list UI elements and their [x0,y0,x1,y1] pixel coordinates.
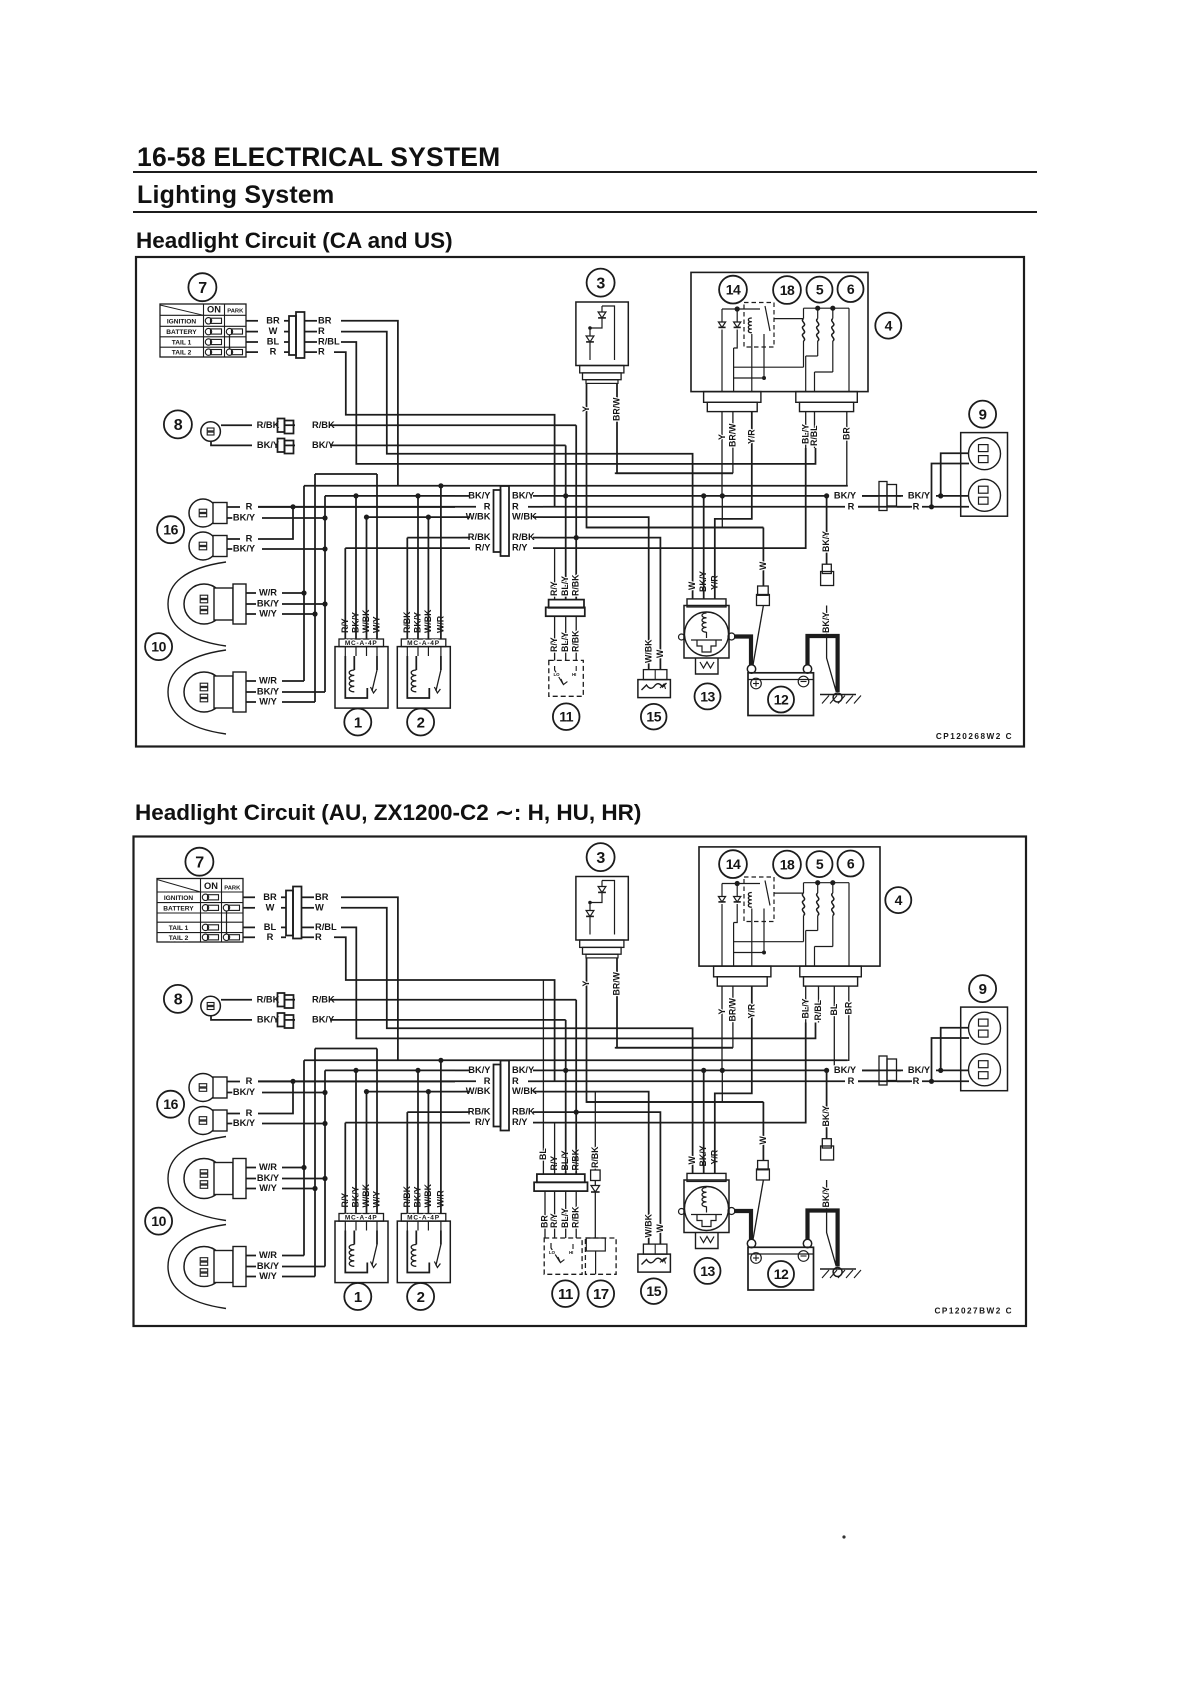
svg-text:9: 9 [979,407,987,424]
svg-text:BL: BL [829,1003,839,1015]
svg-text:R/BL: R/BL [813,999,823,1020]
wire W ignition to starter relay bus [341,908,693,1174]
battery terminal minus symbol [798,1251,809,1262]
svg-text:5: 5 [816,282,824,298]
wire W/R headlamp 1 [246,1167,256,1169]
wire BK/Y headlamp 1 [246,603,256,605]
filament top bus [804,882,850,884]
svg-text:Y: Y [581,406,591,412]
svg-text:BK/Y: BK/Y [908,1065,931,1075]
svg-text:BK/Y: BK/Y [512,491,535,501]
svg-text:R: R [246,1076,253,1086]
city light 16 callout [157,516,184,543]
svg-text:W/BK: W/BK [644,639,654,663]
battery 12 callout [768,1261,794,1287]
svg-text:R: R [913,501,920,511]
wire BL/Y from junction box [805,412,807,448]
filament F5b [817,893,819,915]
diode D14b [736,884,738,897]
bulb B8 [201,996,221,1016]
svg-text:R: R [848,501,855,511]
diode unit 3 box [576,302,628,366]
relay R1 callout [344,1283,371,1310]
svg-text:R/BL: R/BL [809,425,819,446]
svg-text:R/Y: R/Y [475,1117,491,1127]
wire BK/Y to fuse [826,1070,828,1138]
svg-text:R/BK: R/BK [468,532,491,542]
headlamp bus BK/Y [324,1070,326,1266]
city bulb B16-2 [189,532,217,560]
starter relay terminal left [679,1209,685,1215]
svg-text:BL/Y: BL/Y [560,576,570,596]
battery 12 callout [768,687,794,713]
diode unit 3 internals [601,306,603,312]
bus Y segment [587,527,764,529]
svg-text:BK/Y: BK/Y [257,1015,280,1025]
headlamp bus W/R [303,486,305,681]
battery - post [803,665,811,673]
svg-text:BR: BR [266,315,280,325]
riser BK/Y relay1 [355,496,357,639]
svg-text:15: 15 [646,709,661,725]
battery 12 box [748,673,814,716]
dimmer pin BR lower [544,1191,546,1238]
wire Y from junction box [721,412,723,496]
svg-text:13: 13 [700,688,715,704]
svg-text:Y: Y [717,1009,727,1015]
svg-text:BK/Y: BK/Y [233,513,256,523]
wire BK/Y city bulb 2 [227,548,240,550]
headlamp bulb B10-1 [184,584,224,624]
svg-text:R/BK: R/BK [571,630,581,652]
svg-text:BK/Y: BK/Y [257,440,280,450]
tail bulb B9a [969,1012,1001,1044]
wire R city bulb 2 [227,1113,240,1115]
svg-text:8: 8 [174,992,183,1009]
svg-text:HI: HI [569,1250,573,1255]
relay R1 box [335,1221,388,1283]
tail lamp unit 8 callout [164,410,192,438]
row W/BK left segment [367,516,463,518]
wire R/BL out of connector J7 [305,341,317,343]
row R/BK right to switch15 [543,1112,660,1244]
wire Y/R to starter relay [715,412,752,599]
svg-text:PARK: PARK [224,885,241,891]
ignition switch table [157,879,243,943]
svg-text:BK/Y: BK/Y [257,1173,280,1183]
diagram border [134,837,1027,1327]
dimmer pin R/Y upper [554,548,556,600]
svg-text:R/Y: R/Y [549,1213,559,1228]
svg-text:LO: LO [549,1250,556,1255]
headlamp bulb B10-1 [184,1159,224,1199]
starter relay 13 callout [695,683,721,709]
wire W from ignition switch [243,907,255,909]
bus W/Y to relay R1 [315,1048,377,1050]
riser R/BK relay2 [406,1112,408,1213]
svg-text:W/BK: W/BK [644,1213,654,1237]
junction dot R bus [290,504,295,509]
filament F5a [802,893,804,915]
starter relay 13 lower terminal [696,658,719,674]
dimmer switch box (dashed) [549,660,584,696]
callout 4 [875,313,901,339]
junction internal bus 2 [805,931,807,967]
svg-text:BK/Y: BK/Y [821,612,831,633]
wire BR/W from diode unit [617,958,733,1048]
wire R from ignition switch [246,351,258,353]
svg-text:R: R [267,932,274,942]
battery 12 box [748,1247,814,1290]
relay R2 connector bar MC-A-4P [401,639,446,647]
connector J11 (headlight harness) [494,1065,501,1127]
svg-text:R/Y: R/Y [475,543,491,553]
relay 18 coil [748,893,751,908]
headlamp bus W/Y [314,474,316,702]
wire R/BL out of connector J7 [302,926,314,928]
svg-text:3: 3 [596,275,605,292]
svg-text:W: W [655,649,665,658]
relay 18 coil [748,318,751,333]
diode top bus [722,308,760,310]
svg-text:7: 7 [195,854,204,871]
headlamp reflector 1 [168,1137,226,1221]
wire BK/Y city bulb 1 [227,517,240,519]
city bulb B16-1 [189,1074,217,1102]
svg-text:BK/Y: BK/Y [233,1118,256,1128]
junction dot R bus [290,1079,295,1084]
svg-text:BR/W: BR/W [612,397,622,421]
switch 15 callout [641,704,667,730]
riser R/Y relay1 [344,548,346,639]
svg-text:Y/R: Y/R [747,429,757,444]
junction internal bus 3 [814,372,816,392]
connector J9 [879,482,887,511]
relay R1 pin wire W/Y [376,647,378,656]
svg-text:W: W [687,1156,697,1165]
callout 14 (diodes) [719,850,747,878]
wire R/BK from bulb B8 [221,424,252,426]
wire R city bulb 1 [227,1081,240,1083]
svg-text:R/Y: R/Y [549,581,559,596]
riser W/BK relay1 [366,1092,368,1214]
callout 18 (headlight relay) [773,276,801,304]
bus B4 right segment BR/W [615,1047,733,1049]
wire R/BL to bus B3 [341,927,816,1038]
svg-text:BR: BR [315,892,329,902]
wire Y from diode unit [587,958,764,1102]
bus W/R junction to R2 [304,485,848,487]
callout 5 (fuse) [807,277,833,303]
bus BK/Y to connector J11 [325,495,455,497]
headlamp reflector 2 [168,650,226,734]
junction dot R at box 9 [929,1079,934,1084]
svg-text:W/Y: W/Y [259,1183,277,1193]
relay R2 pin wire BK/Y [417,647,419,656]
tail bulb B9b [969,1054,1001,1086]
svg-text:W/R: W/R [259,588,277,598]
wire R city bulb 2 [227,538,240,540]
svg-text:R/BK: R/BK [590,1146,600,1168]
svg-text:4: 4 [885,318,893,334]
headlamp bus W/Y [314,1049,316,1277]
dimmer pin BL/Y upper [565,496,567,600]
riser BK/Y relay2 [417,496,419,639]
relay 18 dashed box [744,877,774,922]
switch 15 connector [643,1244,667,1254]
starter relay 13 body [684,606,729,659]
wire BK/Y headlamp 2 [246,1266,256,1268]
wire R tail2 to connector J11 R [334,937,555,1081]
dimmer switch contact [551,1243,560,1262]
svg-text:BK/Y: BK/Y [468,491,491,501]
relay R1 pin wire R/Y [344,647,346,656]
relay R2 box [397,647,450,709]
svg-text:2: 2 [417,714,425,731]
svg-text:W/R: W/R [259,1250,277,1260]
rule under section heading [133,211,1037,213]
fuse F-BKY (taillight) [822,564,831,573]
wire W/R headlamp 2 [246,680,256,682]
connector box 17 (dashed) [585,1238,616,1274]
dimmer connector bar [537,1174,585,1182]
relay R2 callout [407,709,434,736]
dimmer pin BL/Y upper [565,1070,567,1174]
svg-text:2: 2 [417,1289,425,1306]
wire BR out of connector J7 [305,320,317,322]
connector J7 (ignition switch 4P) [286,891,293,936]
wire W/Y headlamp 1 [246,1188,256,1190]
wire R/BL to bus B3 [341,342,816,464]
svg-text:BL/Y: BL/Y [560,1208,570,1228]
switch 15 connector [643,670,667,680]
wire BK/Y to fuse [826,496,828,564]
svg-text:R: R [246,502,253,512]
fuse F-W (main) [758,586,769,595]
row W/BK right to switch15 [543,517,649,670]
svg-text:BL: BL [538,1148,548,1160]
dimmer pin BL/Y lower [565,1191,567,1238]
svg-text:8: 8 [174,417,183,434]
riser W/BK relay2 [427,517,429,639]
relay R2 pin wire R/BK [406,1221,408,1230]
svg-text:ON: ON [207,305,221,315]
bus B4 right segment BR/W [615,472,733,474]
svg-text:RB/K: RB/K [468,1107,491,1117]
row R/Y left segment [345,547,462,549]
dimmer 11 callout [553,703,580,730]
diagram border [136,257,1024,747]
svg-text:HI: HI [572,672,576,677]
svg-text:16: 16 [163,1096,178,1112]
dimmer switch box 11 (dashed) [544,1238,582,1274]
diode unit 3 callout [587,843,615,871]
svg-text:BK/Y: BK/Y [908,491,931,501]
wire BK/Y from bulb B8 [211,1016,252,1020]
sub heading diagram 2 [135,800,641,826]
svg-text:BATTERY: BATTERY [163,905,194,912]
relay R1 pin wire BK/Y [355,1221,357,1230]
riser W/R relay2 [440,1060,442,1213]
svg-text:14: 14 [726,856,741,872]
junction dot BK/Y at box 9 [938,493,943,498]
starter relay 13 callout [695,1258,721,1284]
wire BR from junction box [848,986,849,1060]
starter relay terminal right [728,1208,735,1215]
svg-text:5: 5 [816,856,824,872]
wire BK/Y up to tail bulb [941,453,969,496]
svg-text:BK/Y: BK/Y [821,1105,831,1126]
junction internal bus 1 [733,923,735,967]
svg-text:15: 15 [646,1283,661,1299]
riser BK/Y relay1 [355,1070,357,1213]
diode top bus [722,883,760,885]
svg-text:R: R [318,347,325,357]
connector J9 [879,1056,887,1085]
wire BL from ignition switch [243,926,255,928]
connector 17 internals [586,1238,605,1251]
battery + post [747,1239,755,1247]
wire W out of connector J7 [302,907,314,909]
headlight 10 callout [145,1208,172,1235]
tail light 9 callout [969,975,996,1002]
svg-text:3: 3 [596,850,605,867]
riser W/BK relay2 [427,1092,429,1214]
relay R1 connector bar MC-A-4P [339,1214,384,1222]
headlamp reflector 1 [168,562,226,646]
svg-text:10: 10 [151,1213,166,1229]
wire R up to tail bulb [932,1038,970,1081]
switch 15 box [638,1254,671,1272]
filament F6 [832,893,834,915]
city bulb B16-2 [189,1107,217,1135]
svg-text:W/Y: W/Y [259,697,277,707]
thick ground lead from battery [808,1211,838,1267]
relay R1 internals (coil and contact) [345,1231,367,1273]
svg-text:11: 11 [558,1286,573,1303]
relay R1 box [335,647,388,709]
svg-text:BK/Y: BK/Y [257,599,280,609]
svg-text:CP12027BW2 C: CP12027BW2 C [934,1307,1013,1316]
wire BK/Y headlamp 1 [246,1178,256,1180]
junction box connector B [800,966,862,977]
svg-text:16: 16 [163,522,178,538]
row R/Y right to BL/Y [543,1023,806,1123]
connector J8a [278,419,285,433]
wire W fuse to battery [762,1102,764,1161]
relay R1 callout [344,709,371,736]
thick ground lead from battery [808,636,838,692]
starter relay 13 cap [687,1173,726,1181]
svg-text:R: R [484,1076,491,1086]
svg-text:TAIL 2: TAIL 2 [169,935,189,942]
ground symbol [833,1268,842,1277]
svg-text:W: W [315,902,324,912]
diode unit 3 callout [587,269,615,297]
svg-text:6: 6 [847,856,855,872]
tail light 9 callout [969,401,996,428]
svg-text:R: R [315,932,322,942]
svg-text:R: R [246,534,253,544]
svg-text:W: W [687,581,697,590]
row R left segment [258,506,457,508]
relay R2 pin wire W/BK [427,1221,429,1230]
svg-text:1: 1 [354,714,362,731]
svg-text:4: 4 [895,892,903,908]
wire BK/Y from bulb B8 [211,441,252,445]
relay R1 pin wire W/Y [376,1221,378,1230]
svg-text:IGNITION: IGNITION [164,895,194,902]
riser W/BK relay1 [366,517,368,639]
riser R/Y relay1 [344,1123,346,1214]
row BK/Y right [543,495,828,497]
diode unit 3 box [576,877,628,941]
svg-text:13: 13 [700,1263,715,1279]
row R/BK left segment [407,537,462,539]
junction box connector A [714,966,771,977]
wire BK/Y headlamp 2 [246,691,256,693]
dimmer pin R/BK upper [575,538,577,600]
callout 6 (fuse) [838,851,864,877]
starter relay 13 coil circle [685,1187,729,1231]
svg-text:W/R: W/R [259,1162,277,1172]
wire R out of connector J7 [302,936,314,938]
filament top bus [804,307,850,309]
wire R city bulb 1 [227,506,240,508]
connector J11 (headlight harness) [494,490,501,552]
relay R2 pin wire W/BK [427,647,429,656]
wire BR ignition to junction bus [341,897,398,1060]
svg-text:6: 6 [847,281,855,297]
svg-text:R/BL: R/BL [315,922,337,932]
stray ink dot [842,1535,845,1538]
svg-text:18: 18 [780,282,795,298]
svg-text:TAIL 1: TAIL 1 [172,340,192,347]
wire W/Y headlamp 2 [246,701,256,703]
battery terminal minus symbol [798,676,809,687]
svg-text:R: R [484,501,491,511]
svg-text:BATTERY: BATTERY [166,329,197,336]
starter relay 13 coil circle [685,612,729,656]
bus Y segment [587,1101,764,1103]
fuse F-W (main) [758,1161,769,1170]
svg-text:BR/W: BR/W [612,971,622,995]
relay R2 pin wire W/R [440,1221,442,1230]
bus W/R junction to R2 [304,1059,848,1061]
connector J8b [278,439,285,453]
wire R from ignition switch [243,936,255,938]
relay 18 contact [765,306,770,331]
relay R2 box [397,1221,450,1283]
fuse F17 [591,1170,601,1181]
wire BR ignition to junction bus [341,321,398,486]
relay R1 pin wire W/BK [366,647,368,656]
relay R1 pin wire R/Y [344,1221,346,1230]
svg-text:R: R [512,501,519,511]
svg-text:RB/K: RB/K [512,1107,535,1117]
headlamp bus W/R [303,1060,305,1255]
svg-text:11: 11 [559,709,574,725]
svg-text:BK/Y: BK/Y [468,1065,491,1075]
wire BR out of connector J7 [302,896,314,898]
relay R2 pin wire W/R [440,647,442,656]
riser BK/Y relay2 [417,1070,419,1213]
headlamp reflector 2 [168,1225,226,1309]
ignition switch SW7 callout [185,848,213,876]
battery - post [803,1239,811,1247]
wire R out of connector J7 [305,351,317,353]
relay R2 callout [407,1283,434,1310]
